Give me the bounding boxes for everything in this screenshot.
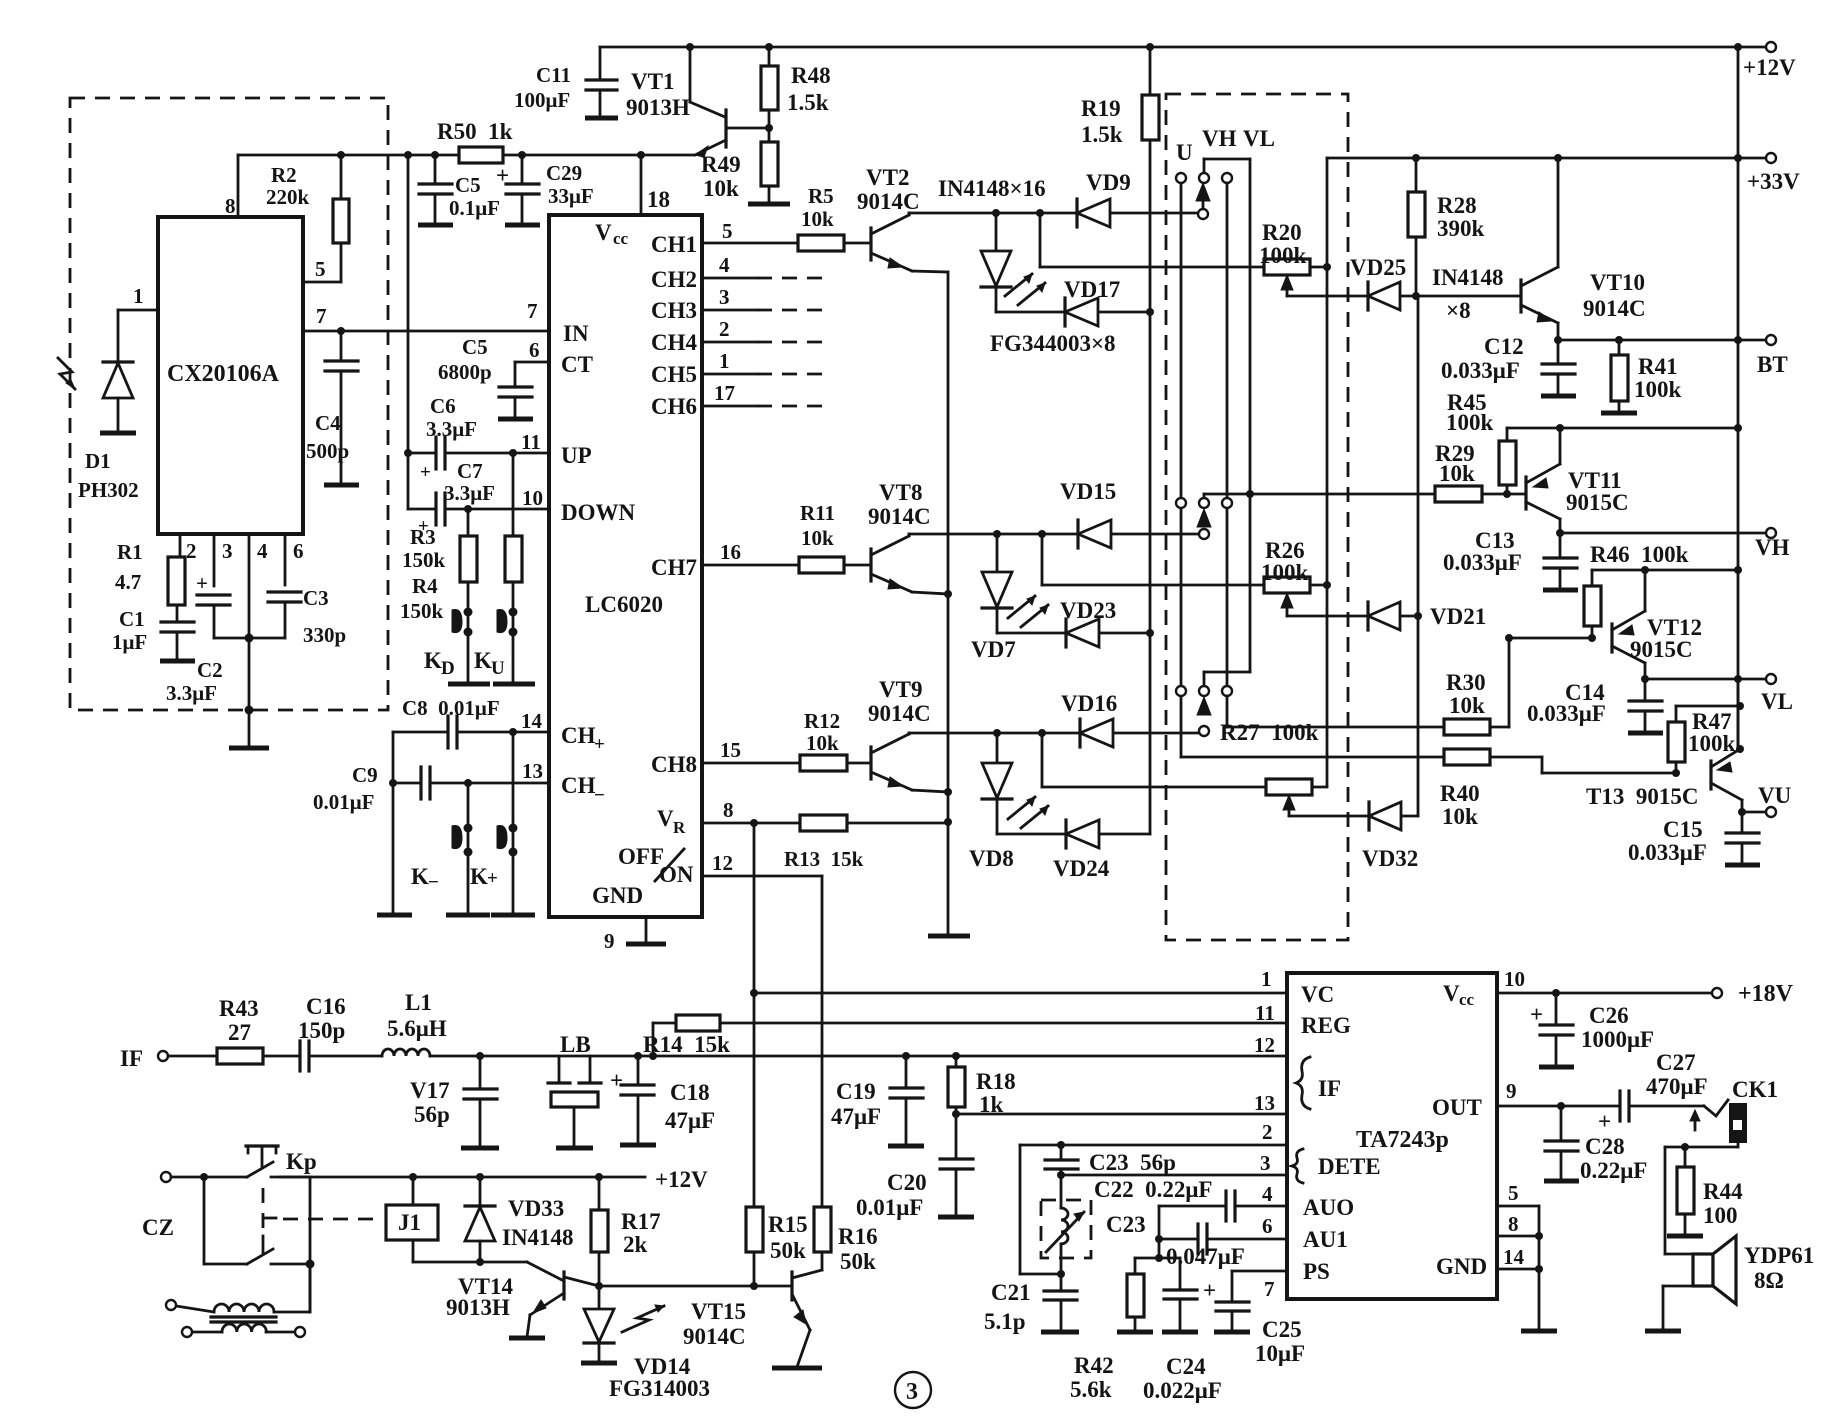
svg-text:3: 3: [222, 539, 233, 563]
node +33V junctions: [1412, 154, 1420, 162]
svg-text:100μF: 100μF: [514, 88, 570, 112]
svg-text:CH1: CH1: [651, 232, 697, 257]
svg-text:10μF: 10μF: [1255, 1341, 1305, 1366]
svg-text:9: 9: [1506, 1079, 1517, 1103]
svg-text:C21: C21: [991, 1280, 1031, 1305]
svg-text:+12V: +12V: [1743, 55, 1796, 80]
pin 5 wire: [303, 281, 341, 284]
svg-text:1.5k: 1.5k: [787, 90, 829, 115]
svg-text:CH2: CH2: [651, 267, 697, 292]
svg-text:R30: R30: [1446, 670, 1486, 695]
svg-text:500p: 500p: [306, 439, 349, 463]
resistor R48 1.5k: [768, 47, 771, 66]
wire VT11 collector top row: [1507, 427, 1738, 430]
resistor R15 50k: [746, 1207, 763, 1252]
wire VR vertical to bottom: [753, 823, 756, 1207]
svg-text:PH302: PH302: [78, 478, 139, 502]
svg-text:C3: C3: [303, 586, 329, 610]
ground emitter bus: [928, 934, 970, 939]
svg-text:C6: C6: [430, 394, 456, 418]
svg-text:DOWN: DOWN: [561, 500, 636, 525]
transistor VT12 9015C: [1610, 624, 1613, 652]
svg-text:VL: VL: [1243, 126, 1275, 151]
svg-text:GND: GND: [592, 883, 643, 908]
svg-text:12: 12: [1254, 1033, 1275, 1057]
pin 12 OFF/ON wire: [702, 875, 822, 878]
svg-text:−: −: [428, 872, 439, 893]
svg-text:CK1: CK1: [1732, 1077, 1778, 1102]
svg-text:C16: C16: [306, 994, 346, 1019]
svg-text:PS: PS: [1303, 1259, 1330, 1284]
node +12V rail corner to vertical feeder: [1737, 47, 1740, 161]
svg-text:12: 12: [712, 851, 733, 875]
svg-text:IF: IF: [1318, 1076, 1341, 1101]
svg-text:U: U: [491, 658, 505, 679]
svg-text:+: +: [1598, 1109, 1611, 1134]
svg-text:CH6: CH6: [651, 394, 697, 419]
switch Kp lower pole: [247, 1249, 273, 1264]
wire VD24 row: [997, 833, 1150, 836]
wire pin2 row: [1020, 1144, 1287, 1147]
wire R26 branch from VT8 row: [1041, 534, 1044, 585]
svg-text:C1: C1: [119, 607, 145, 631]
svg-text:C8 0.01μF: C8 0.01μF: [402, 696, 500, 720]
wire UP branch down: [512, 453, 515, 536]
capacitor V17 56p: [479, 1056, 482, 1088]
diode VD15: [1076, 520, 1079, 548]
svg-text:VD8: VD8: [969, 846, 1014, 871]
svg-text:VD7: VD7: [971, 637, 1016, 662]
resistor R43 27: [217, 1048, 263, 1064]
svg-text:R18: R18: [976, 1069, 1016, 1094]
svg-text:cc: cc: [1459, 990, 1475, 1009]
svg-text:CX20106A: CX20106A: [167, 361, 280, 387]
resistor R16 50k: [814, 1207, 831, 1252]
svg-text:C12: C12: [1484, 334, 1524, 359]
svg-text:IN4148×16: IN4148×16: [938, 176, 1046, 201]
svg-text:cc: cc: [613, 229, 629, 248]
svg-text:150k: 150k: [400, 599, 444, 623]
svg-text:47μF: 47μF: [665, 1108, 715, 1133]
svg-text:DETE: DETE: [1318, 1154, 1381, 1179]
svg-text:K: K: [470, 864, 488, 889]
svg-text:R5: R5: [808, 184, 834, 208]
wire VD23 row: [997, 632, 1150, 635]
connector column U: [1180, 183, 1183, 757]
svg-text:VT15: VT15: [691, 1299, 746, 1324]
svg-text:5.6k: 5.6k: [1070, 1377, 1112, 1402]
resistor R50 1k: [459, 147, 503, 163]
svg-text:9014C: 9014C: [857, 189, 920, 214]
svg-text:1: 1: [719, 349, 730, 373]
resistor R13 15k: [800, 815, 847, 831]
svg-text:1: 1: [1261, 967, 1272, 991]
resistor R28 390k: [1415, 158, 1418, 192]
svg-text:T13 9015C: T13 9015C: [1586, 784, 1698, 809]
svg-text:R13 15k: R13 15k: [784, 847, 864, 871]
svg-text:9013H: 9013H: [626, 95, 690, 120]
wire VR distribution vertical x1418: [1417, 296, 1420, 816]
svg-text:1μF: 1μF: [112, 630, 147, 654]
resistor R1 4.7: [168, 557, 185, 605]
svg-text:C24: C24: [1166, 1354, 1206, 1379]
svg-text:VT9: VT9: [879, 677, 922, 702]
svg-text:100k: 100k: [1634, 377, 1682, 402]
capacitor C16 150p: [298, 1041, 301, 1071]
svg-text:C26: C26: [1589, 1003, 1629, 1028]
connector column VH: [1203, 159, 1206, 173]
svg-text:K: K: [474, 648, 492, 673]
wire pin3 row: [1061, 1174, 1287, 1177]
wire VH row: [1556, 529, 1564, 537]
svg-text:C27: C27: [1656, 1050, 1696, 1075]
wire BT row: [1554, 336, 1562, 344]
svg-text:10k: 10k: [801, 526, 834, 550]
svg-text:CH7: CH7: [651, 555, 697, 580]
svg-text:3.3μF: 3.3μF: [426, 417, 477, 441]
svg-text:K: K: [424, 648, 442, 673]
capacitor C11 100uF: [599, 47, 602, 80]
svg-text:VD15: VD15: [1060, 479, 1116, 504]
diode FG array cell 1 (VT2 branch): [995, 213, 998, 250]
connector dashed box: [1166, 94, 1348, 940]
diode FG array cell 2 (VD7): [996, 534, 999, 571]
svg-text:2k: 2k: [623, 1232, 648, 1257]
svg-text:9015C: 9015C: [1630, 637, 1693, 662]
wire +33V bus down left end: [1326, 158, 1329, 786]
svg-text:VT2: VT2: [866, 165, 909, 190]
svg-text:5.1p: 5.1p: [984, 1309, 1026, 1334]
svg-text:3.3μF: 3.3μF: [166, 681, 217, 705]
resistor R17 2k: [598, 1177, 601, 1210]
svg-text:VD25: VD25: [1350, 255, 1406, 280]
svg-text:9: 9: [604, 929, 615, 953]
pin 1 wire: [118, 309, 158, 312]
svg-text:0.22μF: 0.22μF: [1580, 1158, 1647, 1183]
svg-text:100: 100: [1703, 1203, 1738, 1228]
capacitor C19 47uF: [905, 1056, 908, 1087]
resistor R45 100k: [1506, 428, 1509, 441]
svg-text:D: D: [441, 658, 455, 679]
resistor R5 10k: [798, 235, 844, 251]
svg-text:0.047μF: 0.047μF: [1166, 1244, 1245, 1269]
svg-text:9014C: 9014C: [868, 701, 931, 726]
wire Vcc row y155: [238, 154, 459, 157]
resistor R46 100k: [1591, 570, 1594, 586]
svg-text:YDP61: YDP61: [1744, 1243, 1814, 1268]
svg-text:GND: GND: [1436, 1254, 1487, 1279]
capacitor C3 330p: [268, 590, 301, 593]
svg-text:VC: VC: [1301, 982, 1334, 1007]
svg-text:9014C: 9014C: [868, 504, 931, 529]
svg-text:16: 16: [720, 540, 741, 564]
connector selector group3 arrow: [1197, 697, 1211, 715]
svg-text:IN4148: IN4148: [502, 1225, 574, 1250]
wire VC row (pin1): [754, 992, 1287, 995]
pin CH6 row: [702, 405, 757, 408]
diode VD16: [1078, 719, 1081, 747]
svg-text:10k: 10k: [703, 176, 739, 201]
resistor R29 10k: [1435, 486, 1482, 502]
pins 5 8 14: [1497, 1205, 1539, 1208]
svg-text:CH8: CH8: [651, 752, 697, 777]
svg-text:C28: C28: [1585, 1134, 1625, 1159]
svg-text:0.01μF: 0.01μF: [313, 790, 374, 814]
mech link dashed: [262, 1188, 265, 1232]
transistor VT11 9015C: [1524, 477, 1527, 509]
capacitor C14 0.033uF: [1644, 679, 1647, 700]
svg-text:VT1: VT1: [631, 69, 674, 94]
svg-text:1: 1: [133, 284, 144, 308]
svg-text:V: V: [1443, 981, 1460, 1006]
svg-text:9013H: 9013H: [446, 1295, 510, 1320]
svg-text:C18: C18: [670, 1080, 710, 1105]
svg-text:R3: R3: [410, 525, 436, 549]
svg-text:FG314003: FG314003: [609, 1376, 710, 1401]
LED VD23: [1064, 619, 1067, 647]
switch Kp upper pole: [247, 1162, 273, 1177]
svg-text:6: 6: [529, 338, 540, 362]
wire VL row: [1641, 675, 1649, 683]
transistor VT15 9014C: [790, 1272, 793, 1300]
resistor R12 10k: [800, 755, 847, 771]
resistor R47 100k: [1676, 705, 1740, 708]
IC CX20106A: [158, 217, 303, 534]
capacitor C5 0.1uF: [434, 155, 437, 184]
svg-text:VD24: VD24: [1053, 856, 1110, 881]
svg-text:C5: C5: [462, 335, 488, 359]
wire VT12 base row from connector VL: [1509, 637, 1592, 640]
svg-text:1.5k: 1.5k: [1081, 122, 1123, 147]
IC TA7243p: [1287, 973, 1497, 1299]
pin 8 VR row with R13: [702, 822, 800, 825]
svg-text:+: +: [487, 868, 498, 889]
svg-text:11: 11: [1255, 1001, 1275, 1025]
svg-text:+: +: [420, 462, 431, 483]
svg-text:1000μF: 1000μF: [1581, 1027, 1654, 1052]
pin stems 2 3 4 6: [179, 534, 182, 557]
svg-text:REG: REG: [1301, 1013, 1351, 1038]
switch KU: [512, 582, 515, 684]
svg-text:+18V: +18V: [1738, 981, 1794, 1007]
pin18 stem: [640, 155, 643, 215]
diode VD9: [1075, 199, 1078, 227]
svg-text:R48: R48: [791, 63, 831, 88]
svg-text:R49: R49: [701, 152, 741, 177]
pin6 CT wire: [515, 361, 549, 364]
svg-text:BT: BT: [1757, 352, 1788, 377]
wire Vcc drop to C6/C7: [407, 155, 410, 509]
svg-text:14: 14: [1503, 1245, 1525, 1269]
svg-text:VT10: VT10: [1590, 270, 1645, 295]
svg-text:0.01μF: 0.01μF: [856, 1195, 923, 1220]
svg-text:VD16: VD16: [1061, 691, 1117, 716]
resistor R49 10k: [768, 128, 771, 142]
svg-text:R15: R15: [768, 1212, 808, 1237]
terminal +33V: [1766, 153, 1776, 163]
svg-text:OUT: OUT: [1432, 1095, 1482, 1120]
svg-text:2: 2: [719, 317, 730, 341]
svg-text:C4: C4: [315, 411, 341, 435]
svg-text:50k: 50k: [770, 1238, 806, 1263]
svg-text:+: +: [196, 571, 208, 595]
svg-text:100k: 100k: [1446, 410, 1494, 435]
photodiode D1 PH302: [103, 360, 133, 363]
svg-text:17: 17: [714, 381, 735, 405]
svg-text:150p: 150p: [298, 1018, 345, 1043]
diode FG array cell 3 (VD8): [996, 733, 999, 762]
pin CH7 row: [702, 564, 799, 567]
potentiometer R27 100k: [1266, 779, 1312, 795]
LED VD14 FG314003: [598, 1286, 601, 1308]
switch K-: [467, 783, 470, 914]
svg-text:6800p: 6800p: [438, 360, 492, 384]
svg-text:7: 7: [1264, 1277, 1275, 1301]
resistor R2 220k: [333, 199, 349, 243]
pin CH1 row: [702, 242, 798, 245]
relay J1: [386, 1205, 438, 1240]
svg-text:R17: R17: [621, 1209, 661, 1234]
svg-text:V: V: [595, 220, 612, 245]
svg-text:K: K: [411, 864, 429, 889]
svg-text:18: 18: [647, 187, 670, 212]
svg-text:33μF: 33μF: [548, 184, 594, 208]
svg-text:10k: 10k: [1442, 804, 1478, 829]
svg-text:4: 4: [719, 253, 730, 277]
svg-text:11: 11: [521, 430, 541, 454]
svg-text:R: R: [673, 818, 686, 837]
wire VT14 collector row to VT15 base: [599, 1285, 790, 1288]
svg-text:CH: CH: [561, 773, 596, 798]
resistor R18 1k: [955, 1056, 958, 1067]
transistor VT1 9013H: [689, 47, 692, 102]
svg-text:U: U: [1176, 140, 1193, 165]
connector column VL: [1222, 173, 1232, 183]
svg-text:100k: 100k: [1688, 731, 1736, 756]
resistor R3 150k: [467, 509, 470, 536]
svg-text:R41: R41: [1638, 354, 1678, 379]
svg-text:0.033μF: 0.033μF: [1628, 840, 1707, 865]
diode VD21: [1366, 602, 1369, 630]
svg-text:VH: VH: [1755, 535, 1790, 560]
svg-text:7: 7: [316, 304, 327, 328]
svg-text:VL: VL: [1761, 689, 1793, 714]
svg-text:TA7243p: TA7243p: [1356, 1127, 1449, 1153]
pin 7 row to LC6020 IN: [303, 330, 549, 333]
svg-text:0.033μF: 0.033μF: [1527, 701, 1606, 726]
svg-text:9014C: 9014C: [1583, 296, 1646, 321]
capacitor C23 56p: [1060, 1145, 1063, 1159]
transistor VT8 9014C: [869, 549, 872, 581]
pin 8 stem: [237, 155, 240, 217]
svg-text:9015C: 9015C: [1566, 490, 1629, 515]
svg-text:C7: C7: [457, 459, 483, 483]
svg-text:150k: 150k: [402, 548, 446, 572]
connector selector group2 arrow: [1197, 509, 1211, 527]
svg-text:6: 6: [293, 539, 304, 563]
svg-text:VD32: VD32: [1362, 846, 1418, 871]
svg-text:C23: C23: [1106, 1212, 1146, 1237]
svg-text:330p: 330p: [303, 623, 346, 647]
svg-text:8Ω: 8Ω: [1754, 1268, 1784, 1293]
svg-text:100k: 100k: [1261, 560, 1309, 585]
svg-text:VT8: VT8: [879, 480, 922, 505]
svg-text:R14 15k: R14 15k: [643, 1032, 730, 1057]
resistor R4 150k: [505, 536, 522, 582]
diode VD33 IN4148: [479, 1177, 482, 1206]
svg-text:Kp: Kp: [286, 1149, 317, 1174]
capacitor C12 0.033uF: [1557, 340, 1560, 363]
capacitor C21 5.1p: [1060, 1274, 1063, 1290]
svg-text:4.7: 4.7: [115, 570, 141, 594]
svg-text:+: +: [610, 1068, 623, 1093]
svg-text:CT: CT: [561, 352, 593, 377]
svg-text:47μF: 47μF: [831, 1104, 881, 1129]
svg-text:VH: VH: [1202, 126, 1237, 151]
ground R49: [748, 202, 790, 207]
svg-text:L1: L1: [405, 990, 432, 1015]
capacitor C1 1uF: [176, 605, 179, 622]
svg-text:CH4: CH4: [651, 330, 698, 355]
node dashed crossing dot / ground pin4: [245, 706, 254, 715]
terminal +12V: [1766, 42, 1776, 52]
transistor VT9 9014C: [869, 747, 872, 779]
svg-text:R42: R42: [1074, 1353, 1114, 1378]
svg-text:100k: 100k: [1259, 243, 1307, 268]
svg-text:0.1μF: 0.1μF: [449, 196, 500, 220]
svg-text:R46 100k: R46 100k: [1590, 542, 1689, 567]
speaker YDP61: [1693, 1254, 1713, 1286]
pin CH4 row: [702, 341, 757, 344]
svg-text:27: 27: [228, 1020, 251, 1045]
svg-text:9014C: 9014C: [683, 1324, 746, 1349]
resistor R11 10k: [799, 557, 844, 573]
pin CH5 row: [702, 373, 757, 376]
pin 9 OUT row: [1497, 1105, 1619, 1108]
svg-text:+: +: [1530, 1002, 1543, 1027]
svg-text:3: 3: [906, 1379, 918, 1405]
svg-text:10k: 10k: [1439, 461, 1475, 486]
svg-text:7: 7: [527, 299, 538, 323]
svg-text:CH3: CH3: [651, 298, 697, 323]
svg-text:AU1: AU1: [1303, 1227, 1348, 1252]
wire VD17 row: [996, 311, 1150, 314]
pin CH3 row: [702, 309, 757, 312]
discriminator coil (dashed): [1041, 1200, 1091, 1258]
svg-text:56p: 56p: [414, 1102, 450, 1127]
svg-text:6: 6: [1262, 1214, 1273, 1238]
wire +12V top rail: [600, 46, 1738, 49]
svg-text:14: 14: [521, 709, 543, 733]
svg-text:3.3μF: 3.3μF: [444, 481, 495, 505]
svg-text:C5: C5: [455, 173, 481, 197]
svg-text:CH: CH: [561, 723, 596, 748]
diode VD32: [1367, 802, 1370, 830]
potentiometer R20 100k: [1264, 259, 1310, 275]
svg-text:+12V: +12V: [655, 1167, 708, 1192]
svg-text:220k: 220k: [266, 185, 310, 209]
capacitor C20 0.01uF: [955, 1114, 958, 1158]
svg-text:C29: C29: [546, 161, 582, 185]
svg-text:0.033μF: 0.033μF: [1441, 358, 1520, 383]
wire emitter bus: [947, 272, 950, 935]
svg-text:CZ: CZ: [142, 1215, 174, 1240]
svg-text:2: 2: [1262, 1120, 1273, 1144]
svg-text:VD23: VD23: [1060, 598, 1116, 623]
svg-text:50k: 50k: [840, 1249, 876, 1274]
svg-text:390k: 390k: [1437, 216, 1485, 241]
wire right feeder vertical (to BT/VH/VL rows): [1737, 161, 1740, 749]
